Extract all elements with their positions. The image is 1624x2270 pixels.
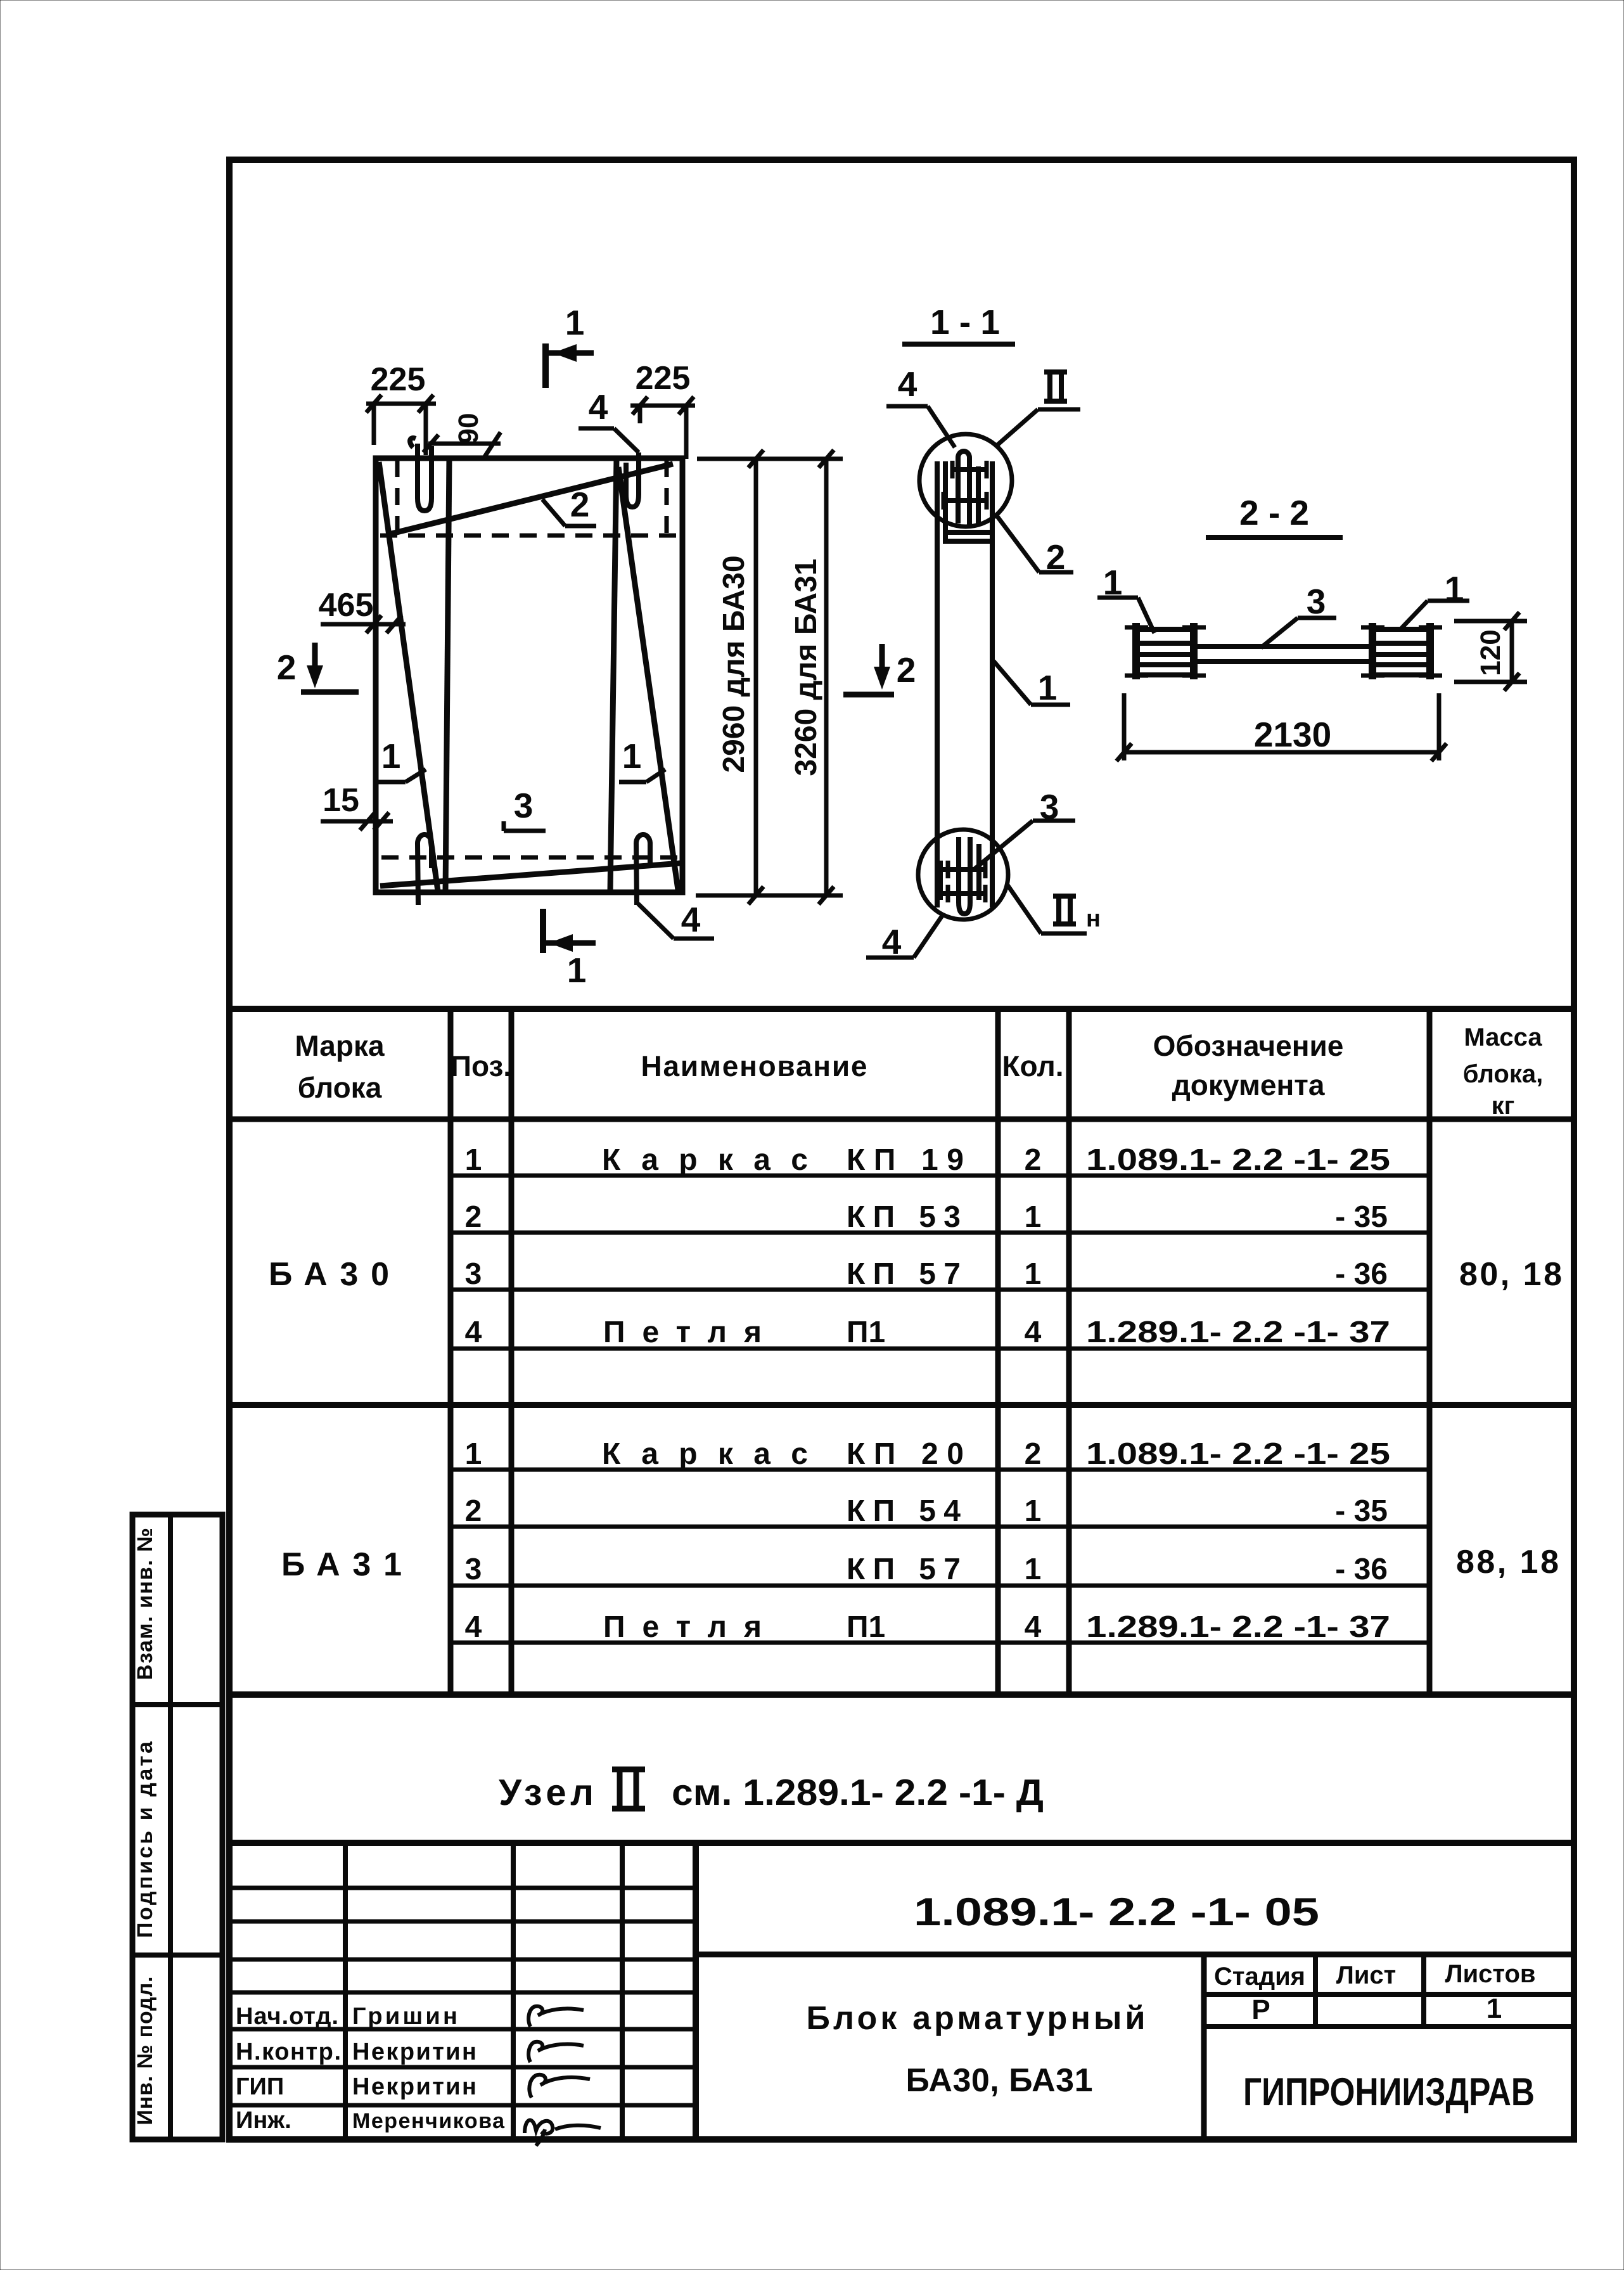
loop P1 bottom-left <box>418 835 432 905</box>
svg-text:1: 1 <box>1025 1200 1042 1234</box>
svg-text:4: 4 <box>1025 1316 1042 1349</box>
svg-text:Подпись и дата: Подпись и дата <box>133 1741 157 1938</box>
stage table <box>1204 1954 1574 2139</box>
section cut 1 top marker <box>546 303 594 388</box>
left diagonal bar item 1 <box>379 462 438 891</box>
svg-text:Инв. № подл.: Инв. № подл. <box>133 1977 157 2126</box>
svg-text:Некритин: Некритин <box>352 2039 476 2065</box>
svg-text:Масса: Масса <box>1464 1023 1542 1051</box>
svg-text:1: 1 <box>465 1143 482 1177</box>
svg-text:Кол.: Кол. <box>1002 1049 1063 1082</box>
svg-text:2: 2 <box>1025 1143 1042 1177</box>
svg-text:2: 2 <box>897 650 916 689</box>
label 4 top (plan) <box>579 387 639 452</box>
svg-text:4: 4 <box>681 900 701 939</box>
dim 15 <box>321 782 393 830</box>
right end piece <box>1361 623 1442 679</box>
svg-text:Марка: Марка <box>295 1029 385 1062</box>
svg-text:2960 для БА30: 2960 для БА30 <box>717 555 751 773</box>
svg-text:П1: П1 <box>847 1316 885 1349</box>
label 3 (plan) <box>504 786 546 831</box>
svg-text:2: 2 <box>1025 1437 1042 1471</box>
dashed line top horizontal <box>380 534 679 538</box>
label 3 (2-2) <box>1261 582 1336 648</box>
svg-text:Взам. инв. №: Взам. инв. № <box>133 1528 157 1680</box>
label 1 right (plan) <box>619 736 665 782</box>
dashed vertical top-left <box>395 460 400 535</box>
svg-text:блока,: блока, <box>1463 1060 1543 1088</box>
section cut 2 left marker <box>277 643 359 692</box>
main frame <box>229 160 1574 2139</box>
top diagonal bar item 2 <box>389 464 673 534</box>
connecting bar item 3 <box>1194 646 1372 662</box>
svg-text:П1: П1 <box>847 1610 885 1644</box>
svg-text:2 - 2: 2 - 2 <box>1239 493 1309 532</box>
strip label 2 <box>133 1741 157 1938</box>
label 1 (1-1) <box>994 661 1070 707</box>
left end piece <box>1125 623 1206 679</box>
svg-text:КП 19: КП 19 <box>847 1143 964 1177</box>
svg-text:Лист: Лист <box>1336 1961 1397 1989</box>
svg-text:90: 90 <box>453 413 484 444</box>
svg-text:Листов: Листов <box>1445 1960 1536 1988</box>
label 4 bottom-left (1-1) <box>866 914 943 961</box>
dashed line bottom horizontal <box>381 856 681 860</box>
svg-text:2: 2 <box>570 485 590 524</box>
signatures <box>525 2006 601 2146</box>
svg-text:БА30, БА31: БА30, БА31 <box>906 2062 1093 2099</box>
svg-text:БА30: БА30 <box>269 1256 389 1293</box>
right diagonal bar item 1 <box>618 467 678 890</box>
section cut 1 bottom marker <box>543 909 596 990</box>
svg-text:80, 18: 80, 18 <box>1459 1256 1562 1293</box>
svg-text:Наименование: Наименование <box>641 1049 867 1082</box>
svg-text:1 - 1: 1 - 1 <box>930 302 1000 342</box>
svg-text:КП 20: КП 20 <box>847 1437 964 1471</box>
svg-text:2: 2 <box>277 648 297 687</box>
svg-text:2130: 2130 <box>1254 715 1331 754</box>
svg-text:блока: блока <box>298 1071 382 1104</box>
label 3 (1-1) <box>974 787 1075 869</box>
svg-text:Нач.отд.: Нач.отд. <box>236 2003 338 2030</box>
svg-text:1.089.1- 2.2 -1- 25: 1.089.1- 2.2 -1- 25 <box>1086 1143 1390 1177</box>
svg-text:БА31: БА31 <box>281 1546 402 1583</box>
svg-text:1.089.1- 2.2 -1- 05: 1.089.1- 2.2 -1- 05 <box>914 1890 1319 1934</box>
loop P1 bottom-right <box>636 835 650 905</box>
svg-text:Стадия: Стадия <box>1214 1963 1305 1991</box>
loop P1 top-left <box>410 438 432 511</box>
svg-text:1: 1 <box>567 951 587 990</box>
svg-text:Некритин: Некритин <box>352 2074 476 2100</box>
bottom diagonal bar item 3 <box>380 863 681 886</box>
svg-text:Н.контр.: Н.контр. <box>236 2039 341 2065</box>
dim text 2960 dlya BA30 <box>717 555 751 773</box>
table block BA30 <box>269 1143 1562 1349</box>
svg-text:225: 225 <box>636 360 691 397</box>
svg-text:Поз.: Поз. <box>451 1049 511 1082</box>
signature names <box>236 2003 505 2134</box>
svg-text:КП 54: КП 54 <box>847 1494 961 1528</box>
document number box <box>696 1890 1574 1954</box>
dim 2130 (2-2) <box>1116 693 1447 761</box>
svg-text:- 36: - 36 <box>1335 1257 1388 1291</box>
svg-text:Инж.: Инж. <box>236 2107 291 2134</box>
svg-text:1: 1 <box>1038 668 1058 707</box>
dim 120 (2-2) <box>1454 612 1527 691</box>
node circle bottom <box>918 830 1008 920</box>
table header texts <box>295 1023 1543 1120</box>
svg-text:1: 1 <box>1025 1257 1042 1291</box>
title 2-2 <box>1206 493 1343 537</box>
svg-text:3260 для БА31: 3260 для БА31 <box>790 558 823 776</box>
svg-text:см. 1.289.1- 2.2 -1- Д: см. 1.289.1- 2.2 -1- Д <box>672 1772 1044 1813</box>
svg-text:Петля: Петля <box>603 1610 762 1644</box>
svg-text:Меренчикова: Меренчикова <box>352 2109 505 2133</box>
left carcass line (item 1 vertical) <box>445 458 449 892</box>
svg-text:225: 225 <box>371 361 426 398</box>
title 1-1 <box>902 302 1015 344</box>
svg-text:3: 3 <box>465 1553 482 1586</box>
dim 90 <box>423 413 501 458</box>
label 2 (plan) <box>542 485 596 526</box>
strip label 1 <box>133 1528 157 1680</box>
label 4 bottom (plan) <box>638 900 714 939</box>
svg-text:- 36: - 36 <box>1335 1553 1388 1586</box>
svg-text:КП 57: КП 57 <box>847 1257 961 1291</box>
svg-text:120: 120 <box>1475 629 1506 676</box>
label II top-right (1-1) <box>997 372 1080 446</box>
svg-text:1: 1 <box>1487 1993 1502 2024</box>
svg-text:документа: документа <box>1172 1068 1325 1101</box>
svg-text:4: 4 <box>465 1610 482 1644</box>
top node grid <box>942 451 990 544</box>
svg-text:Петля: Петля <box>603 1316 762 1349</box>
dim 225 left <box>366 361 436 455</box>
svg-text:1: 1 <box>1025 1494 1042 1528</box>
svg-text:1: 1 <box>622 736 642 776</box>
label 1 left (2-2) <box>1097 563 1154 633</box>
svg-text:КП 57: КП 57 <box>847 1553 961 1586</box>
label IIn bottom-right (1-1) <box>1007 884 1101 933</box>
svg-text:Каркас: Каркас <box>602 1143 808 1177</box>
svg-text:кг: кг <box>1492 1092 1515 1120</box>
dim 465 <box>319 587 406 633</box>
title block top line <box>229 1840 1574 1846</box>
svg-text:1: 1 <box>1025 1553 1042 1586</box>
svg-text:4: 4 <box>1025 1610 1042 1644</box>
label 1 right (2-2) <box>1402 569 1469 628</box>
svg-text:КП 53: КП 53 <box>847 1200 961 1234</box>
svg-text:1: 1 <box>381 736 401 776</box>
svg-text:Гришин: Гришин <box>352 2003 457 2030</box>
node circle top <box>919 434 1012 527</box>
svg-text:1.089.1- 2.2 -1- 25: 1.089.1- 2.2 -1- 25 <box>1086 1437 1390 1471</box>
svg-text:ГИП: ГИП <box>236 2074 284 2100</box>
svg-text:1.289.1- 2.2 -1- 37: 1.289.1- 2.2 -1- 37 <box>1086 1610 1390 1644</box>
dim 225 right <box>630 360 695 459</box>
svg-text:1: 1 <box>465 1437 482 1471</box>
svg-text:4: 4 <box>589 387 608 426</box>
svg-text:- 35: - 35 <box>1335 1200 1388 1234</box>
column left edge <box>935 461 940 907</box>
svg-text:ГИПРОНИИЗДРАВ: ГИПРОНИИЗДРАВ <box>1243 2070 1535 2114</box>
right vertical dimension lines <box>696 450 843 904</box>
svg-text:н: н <box>1086 906 1101 932</box>
svg-text:3: 3 <box>514 786 534 825</box>
svg-text:Узел: Узел <box>499 1772 594 1813</box>
svg-text:4: 4 <box>898 364 917 404</box>
column right edge <box>990 461 995 907</box>
table block BA31 <box>281 1437 1559 1644</box>
right carcass line (item 1 vertical) <box>610 458 617 892</box>
svg-text:3: 3 <box>1307 582 1326 621</box>
svg-text:1: 1 <box>565 303 585 342</box>
svg-text:- 35: - 35 <box>1335 1494 1388 1528</box>
dashed vertical top-right <box>665 460 669 535</box>
note Uzel II <box>499 1769 1044 1813</box>
svg-text:Каркас: Каркас <box>602 1437 808 1471</box>
label 1 left (plan) <box>377 736 426 782</box>
drawing name <box>807 2000 1146 2099</box>
svg-text:Р: Р <box>1251 1994 1270 2025</box>
dim text 3260 dlya BA31 <box>790 558 823 776</box>
organization name <box>1243 2070 1535 2114</box>
strip grid <box>132 1515 222 2139</box>
svg-text:3: 3 <box>465 1257 482 1291</box>
svg-text:1.289.1- 2.2 -1- 37: 1.289.1- 2.2 -1- 37 <box>1086 1316 1390 1349</box>
table grid <box>229 1009 1574 1695</box>
svg-text:465: 465 <box>319 587 374 624</box>
plan outline <box>376 458 682 892</box>
label 2 (1-1) <box>995 514 1073 577</box>
svg-text:88, 18: 88, 18 <box>1456 1544 1559 1581</box>
loop P1 top-right <box>626 452 639 507</box>
bottom node grid <box>940 837 987 914</box>
svg-text:15: 15 <box>323 782 359 819</box>
label 4 top-left (1-1) <box>886 364 955 447</box>
strip label 3 <box>133 1977 157 2126</box>
left sub-table grid <box>229 1843 696 2139</box>
svg-text:2: 2 <box>465 1200 482 1234</box>
svg-text:Блок арматурный: Блок арматурный <box>807 2000 1146 2037</box>
svg-text:4: 4 <box>465 1316 482 1349</box>
svg-text:Обозначение: Обозначение <box>1153 1029 1344 1062</box>
section cut 2 right marker (plan) <box>843 644 916 695</box>
svg-text:2: 2 <box>465 1494 482 1528</box>
